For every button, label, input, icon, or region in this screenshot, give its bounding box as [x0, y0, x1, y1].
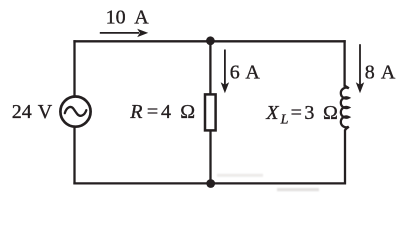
wire right upper [343, 40, 345, 87]
wire left lower [73, 127, 75, 184]
ac source V1 [60, 97, 90, 127]
watermark remnant smudges [217, 174, 319, 191]
wire middle lower [209, 130, 211, 184]
wire top [73, 40, 345, 42]
wire left upper [73, 40, 75, 96]
sine wave [65, 107, 87, 116]
wire middle upper [209, 41, 211, 95]
resistor R [205, 94, 216, 130]
current arrow 6A [224, 50, 226, 86]
wire bottom [73, 182, 346, 184]
svg-text:X=3Ω: X=3Ω [265, 102, 338, 124]
svg-text:8A: 8A [365, 61, 396, 83]
current arrow 8A [359, 44, 361, 85]
svg-text:6A: 6A [230, 61, 261, 83]
inductor XL [341, 85, 349, 130]
junction node bottom [206, 179, 215, 188]
wire right lower [344, 130, 346, 185]
svg-text:R=4Ω: R=4Ω [129, 101, 195, 123]
svg-text:L: L [280, 112, 289, 127]
junction node top [206, 36, 215, 45]
current arrow 10A [100, 32, 139, 34]
